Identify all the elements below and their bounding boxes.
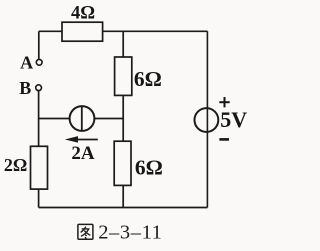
- wire middle horizontal through current source: [39, 118, 124, 120]
- svg-text:2A: 2A: [71, 143, 95, 164]
- svg-text:2–3–11: 2–3–11: [98, 222, 162, 244]
- resistor R2 6ohm upper body: [115, 57, 132, 95]
- wire bottom rail: [39, 207, 208, 209]
- label minus sign of 5V source: [219, 138, 229, 141]
- node A terminal circle: [36, 59, 42, 65]
- svg-text:6Ω: 6Ω: [135, 156, 163, 180]
- resistor R3 6ohm lower body: [114, 141, 131, 185]
- svg-text:A: A: [20, 53, 33, 73]
- voltage source U1 5V circle: [195, 108, 219, 132]
- node B terminal circle: [36, 85, 42, 91]
- svg-text:5V: 5V: [220, 107, 247, 132]
- caption glyph tu (figure): [78, 224, 93, 239]
- wire right vertical branch (passes through 5V source): [206, 31, 208, 207]
- svg-text:4Ω: 4Ω: [71, 3, 95, 23]
- svg-text:B: B: [19, 78, 31, 98]
- label plus sign of 5V source: [219, 97, 229, 107]
- wire from top rail down to node A: [38, 31, 40, 59]
- current source I1 circle: [70, 106, 95, 131]
- wire node B down left branch to bottom rail: [38, 91, 40, 208]
- wire top rail: [39, 30, 208, 32]
- current source I1 internal bar: [81, 107, 83, 130]
- current arrow for 2A: [65, 136, 98, 143]
- svg-text:6Ω: 6Ω: [134, 67, 162, 91]
- svg-text:2Ω: 2Ω: [4, 155, 27, 175]
- resistor R1 4ohm body: [62, 22, 103, 41]
- wire middle vertical branch: [122, 31, 124, 207]
- resistor R4 2ohm body: [31, 146, 48, 189]
